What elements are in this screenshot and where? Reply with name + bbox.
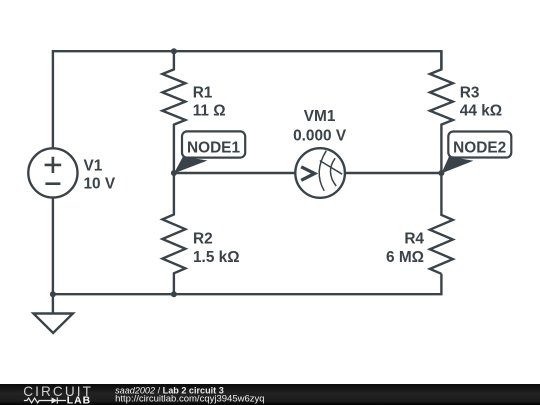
svg-text:NODE2: NODE2 — [453, 139, 506, 156]
svg-text:R4: R4 — [404, 231, 424, 248]
svg-text:6 MΩ: 6 MΩ — [386, 249, 424, 266]
svg-text:10 V: 10 V — [84, 176, 116, 193]
svg-text:http://circuitlab.com/cqyj3945: http://circuitlab.com/cqyj3945w6zyq — [115, 394, 264, 405]
svg-text:0.000 V: 0.000 V — [293, 127, 347, 144]
svg-text:44 kΩ: 44 kΩ — [460, 103, 502, 120]
svg-text:NODE1: NODE1 — [187, 139, 240, 156]
svg-text:R1: R1 — [193, 84, 213, 101]
svg-text:LAB: LAB — [67, 395, 91, 405]
svg-text:VM1: VM1 — [304, 108, 336, 125]
svg-text:R3: R3 — [460, 84, 480, 101]
svg-text:V1: V1 — [84, 157, 103, 174]
svg-text:1.5 kΩ: 1.5 kΩ — [193, 249, 240, 266]
svg-text:11 Ω: 11 Ω — [193, 103, 226, 120]
svg-text:R2: R2 — [193, 230, 213, 247]
